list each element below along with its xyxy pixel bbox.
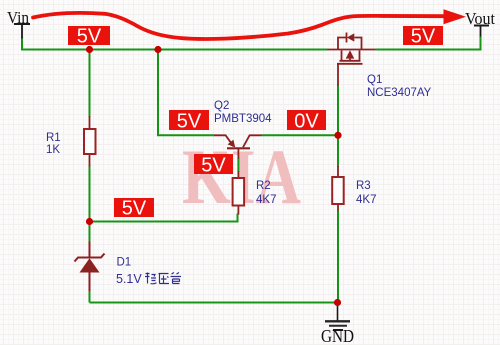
voltage box 5V Q2 base <box>194 154 233 176</box>
annotation arrow head <box>444 9 467 24</box>
voltage box 5V top-right <box>403 25 443 47</box>
junction dot 0V node <box>334 132 341 139</box>
voltage box 5V top-left <box>68 25 110 47</box>
svg-text:5V: 5V <box>177 110 202 132</box>
wire: R1 branch upper <box>89 50 91 118</box>
label R1 1K <box>46 132 61 156</box>
svg-text:D1: D1 <box>117 257 132 269</box>
svg-text:R3: R3 <box>356 180 371 192</box>
svg-text:5.1V: 5.1V <box>116 272 142 286</box>
glyph wen (stable) <box>145 273 157 284</box>
wire: R2 top segment <box>237 158 239 172</box>
label R2 4K7 <box>256 180 276 206</box>
svg-text:NCE3407AY: NCE3407AY <box>367 87 432 99</box>
voltage box 0V Q2 collector <box>287 110 326 132</box>
label D1 zener <box>116 257 142 287</box>
wire: bottom rail <box>90 302 338 304</box>
svg-text:5V: 5V <box>411 25 436 47</box>
svg-text:5V: 5V <box>122 197 147 219</box>
wire: top rail right (Q1 drain to Vout) <box>375 49 481 51</box>
label Q2 PMBT3904 <box>214 100 272 125</box>
svg-text:GND: GND <box>321 326 354 345</box>
svg-text:Vin: Vin <box>7 8 29 27</box>
label Q1 NCE3407AY <box>367 74 432 99</box>
svg-text:Q2: Q2 <box>214 100 229 112</box>
glyph ya (pressure) <box>159 274 170 284</box>
junction dot 5V node <box>86 218 93 225</box>
wire: Q1 gate to 0V node <box>337 85 339 168</box>
terminal Vout <box>465 9 495 37</box>
wire: Vout terminal drop <box>480 36 482 51</box>
svg-text:KIA: KIA <box>182 133 301 220</box>
wire: R1 branch lower to D1 node <box>89 166 91 243</box>
resistor R3 <box>332 166 344 211</box>
wire: R3 bottom to ground rail <box>337 210 339 303</box>
svg-text:4K7: 4K7 <box>256 194 276 206</box>
transistor Q2 <box>214 135 262 148</box>
glyph guan (tube) <box>171 273 182 284</box>
wire: top rail left (Vin to Q1 source) <box>21 49 327 51</box>
svg-text:Vout: Vout <box>465 9 495 28</box>
wire: Vin terminal drop <box>21 38 23 51</box>
resistor R1 <box>84 116 96 167</box>
voltage box 5V Q2 emitter <box>169 110 209 132</box>
annotation red curve Vin to Vout <box>33 13 444 39</box>
label R3 4K7 <box>356 180 376 206</box>
resistor R2 <box>233 148 245 215</box>
wire: Q2 collector to 0V node <box>262 134 339 136</box>
zener diode D1 <box>75 242 105 292</box>
label zener chinese chars <box>145 273 181 284</box>
svg-text:5V: 5V <box>201 154 226 176</box>
junction dot rail-Q2 <box>154 46 161 53</box>
svg-text:0V: 0V <box>294 110 319 132</box>
junction dot ground node <box>334 299 341 306</box>
svg-text:R2: R2 <box>256 180 271 192</box>
svg-text:Q1: Q1 <box>367 74 382 86</box>
svg-text:4K7: 4K7 <box>356 194 376 206</box>
wire: Q2 feed vertical <box>158 50 214 136</box>
svg-text:5V: 5V <box>77 25 102 47</box>
wire: D1 anode drop <box>89 291 91 303</box>
ground symbol GND <box>321 303 354 345</box>
terminal Vin <box>7 8 30 39</box>
voltage box 5V zener node <box>114 197 154 219</box>
junction dot rail-R1 <box>86 46 93 53</box>
svg-text:PMBT3904: PMBT3904 <box>214 113 272 125</box>
wire: node 5V horizontal to R2 bottom <box>90 214 238 222</box>
mosfet Q1 <box>327 33 375 86</box>
svg-text:R1: R1 <box>46 132 61 144</box>
svg-text:1K: 1K <box>46 144 60 156</box>
